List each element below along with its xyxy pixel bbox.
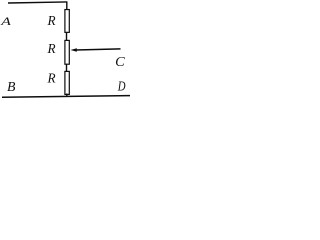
wire: stub R3 to bottom rail — [66, 94, 68, 97]
svg-text:R: R — [47, 71, 56, 86]
wire: top rail from A — [8, 2, 67, 3]
wire: stub R1 to R2 — [66, 32, 68, 41]
wire: bottom rail B to D — [2, 96, 130, 98]
resistor R2 (box) — [65, 40, 69, 64]
svg-text:R: R — [47, 13, 56, 28]
wire: stub R2 to R3 — [66, 64, 68, 72]
resistor R1 (box) — [65, 10, 69, 33]
svg-text:C: C — [115, 54, 126, 69]
svg-text:R: R — [47, 41, 56, 56]
wire: stub from top rail down to R1 — [66, 2, 68, 10]
svg-text:A: A — [0, 14, 12, 28]
resistor R3 (box) — [65, 71, 69, 94]
svg-text:B: B — [7, 79, 16, 94]
svg-text:D: D — [117, 80, 126, 95]
wiper arrow pointing at R2 (from node C) — [76, 49, 121, 50]
